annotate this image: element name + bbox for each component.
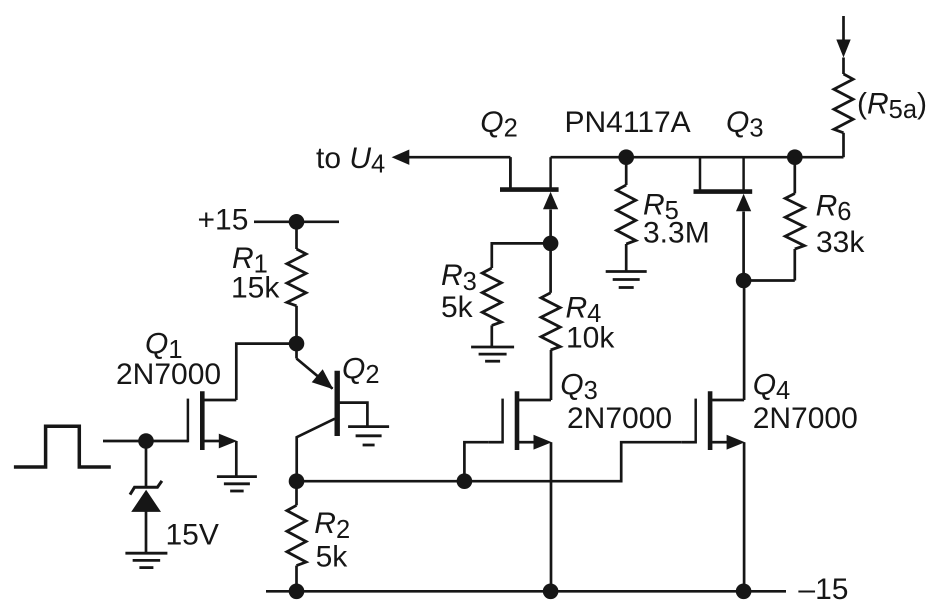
svg-text:2N7000: 2N7000 <box>567 402 672 435</box>
svg-text:Q3: Q3 <box>726 106 764 143</box>
svg-text:2N7000: 2N7000 <box>116 358 221 391</box>
svg-text:2N7000: 2N7000 <box>753 402 858 435</box>
svg-text:Q2: Q2 <box>342 352 380 389</box>
svg-text:3.3M: 3.3M <box>643 217 710 250</box>
svg-text:(R5a): (R5a) <box>857 88 927 125</box>
svg-text:33k: 33k <box>816 226 865 259</box>
svg-text:10k: 10k <box>566 322 615 355</box>
svg-text:+15: +15 <box>198 204 249 237</box>
svg-text:Q4: Q4 <box>753 369 791 406</box>
svg-text:PN4117A: PN4117A <box>565 106 691 139</box>
svg-text:R2: R2 <box>314 507 350 544</box>
svg-text:Q2: Q2 <box>480 106 518 143</box>
svg-text:5k: 5k <box>441 291 474 324</box>
svg-text:5k: 5k <box>316 540 349 573</box>
svg-text:R6: R6 <box>816 190 852 227</box>
svg-text:Q3: Q3 <box>560 369 598 406</box>
svg-text:15k: 15k <box>231 272 280 305</box>
svg-text:to U4: to U4 <box>316 142 385 179</box>
svg-text:15V: 15V <box>166 519 219 552</box>
svg-text:–15: –15 <box>798 573 848 606</box>
